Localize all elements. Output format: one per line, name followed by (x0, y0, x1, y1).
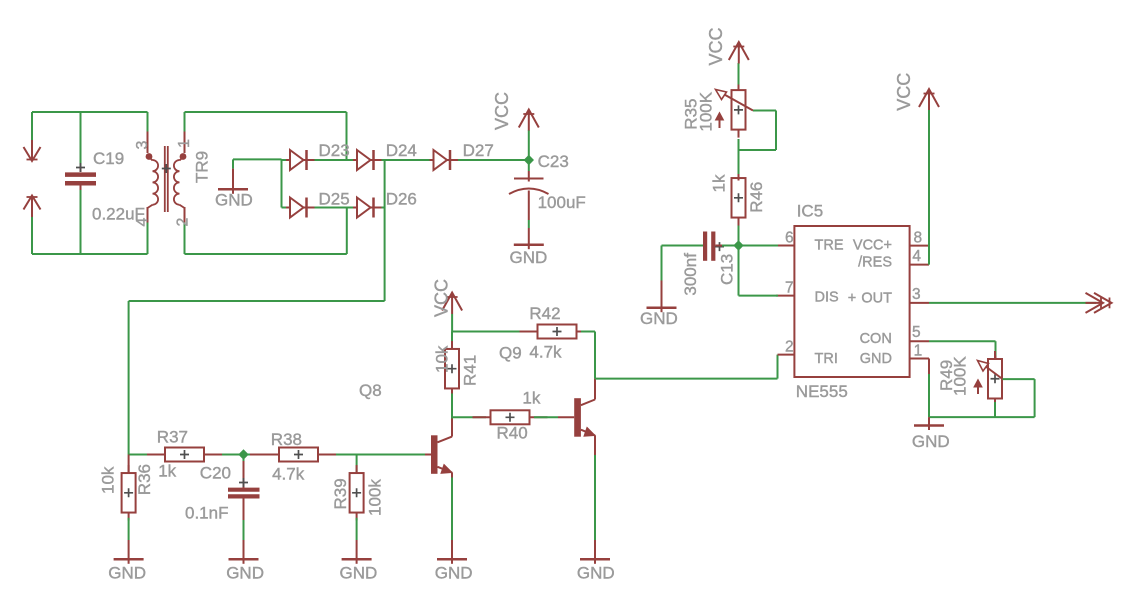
svg-text:8: 8 (914, 230, 923, 247)
svg-text:R36: R36 (135, 464, 154, 495)
svg-text:GND: GND (108, 564, 146, 583)
svg-text:1: 1 (914, 343, 923, 360)
svg-text:VCC: VCC (706, 27, 726, 65)
svg-text:D25: D25 (319, 190, 350, 209)
svg-text:GND: GND (640, 309, 678, 328)
svg-text:3: 3 (912, 286, 921, 303)
svg-text:D23: D23 (319, 141, 350, 160)
svg-text:GND: GND (226, 564, 264, 583)
svg-text:VCC: VCC (432, 279, 452, 317)
svg-text:R46: R46 (747, 182, 766, 213)
svg-text:R38: R38 (271, 430, 302, 449)
svg-text:GND: GND (912, 432, 950, 451)
svg-text:100K: 100K (951, 356, 970, 396)
svg-text:1: 1 (176, 139, 193, 148)
svg-text:GND: GND (510, 248, 548, 267)
svg-text:1k: 1k (522, 388, 540, 407)
svg-text:10k: 10k (432, 345, 451, 373)
svg-text:GND: GND (215, 191, 253, 210)
svg-text:R42: R42 (529, 304, 560, 323)
svg-text:VCC+: VCC+ (853, 238, 892, 254)
svg-text:4.7k: 4.7k (272, 465, 305, 484)
svg-text:TRI: TRI (815, 351, 838, 367)
svg-text:4: 4 (912, 248, 921, 265)
svg-text:IC5: IC5 (797, 202, 823, 221)
svg-text:100k: 100k (365, 479, 384, 516)
svg-text:Q8: Q8 (359, 381, 382, 400)
svg-text:R37: R37 (157, 428, 188, 447)
svg-text:CON: CON (860, 331, 892, 347)
svg-text:100K: 100K (697, 91, 716, 131)
svg-text:/RES: /RES (858, 255, 892, 271)
svg-text:2: 2 (175, 218, 192, 227)
svg-text:DIS: DIS (815, 290, 839, 306)
svg-text:0.1nF: 0.1nF (185, 504, 228, 523)
svg-text:3: 3 (134, 141, 151, 150)
svg-text:100uF: 100uF (538, 193, 586, 212)
svg-text:Q9: Q9 (499, 344, 522, 363)
svg-text:TR9: TR9 (193, 151, 212, 183)
svg-text:NE555: NE555 (796, 382, 848, 401)
svg-text:C19: C19 (93, 149, 124, 168)
svg-text:D26: D26 (386, 190, 417, 209)
svg-text:R39: R39 (331, 478, 350, 509)
svg-text:VCC: VCC (894, 73, 914, 111)
svg-text:2: 2 (785, 339, 794, 356)
svg-text:5: 5 (912, 324, 921, 341)
svg-text:GND: GND (860, 351, 892, 367)
svg-text:C20: C20 (200, 464, 231, 483)
svg-text:1k: 1k (158, 462, 176, 481)
svg-text:GND: GND (435, 564, 473, 583)
svg-text:6: 6 (785, 230, 794, 247)
svg-text:10k: 10k (98, 466, 117, 494)
svg-text:C23: C23 (538, 152, 569, 171)
svg-text:+: + (848, 291, 856, 307)
svg-text:R40: R40 (497, 424, 528, 443)
svg-text:GND: GND (340, 564, 378, 583)
svg-text:D24: D24 (386, 141, 417, 160)
svg-text:7: 7 (785, 280, 794, 297)
svg-text:OUT: OUT (861, 291, 892, 307)
svg-text:GND: GND (577, 564, 615, 583)
svg-text:VCC: VCC (492, 92, 512, 130)
svg-text:C13: C13 (717, 254, 736, 285)
svg-text:D27: D27 (463, 141, 494, 160)
svg-text:300nf: 300nf (681, 253, 700, 296)
svg-text:1k: 1k (709, 174, 728, 192)
svg-text:TRE: TRE (815, 238, 844, 254)
svg-text:R41: R41 (461, 355, 480, 386)
svg-text:4: 4 (134, 218, 151, 227)
svg-text:4.7k: 4.7k (529, 343, 562, 362)
